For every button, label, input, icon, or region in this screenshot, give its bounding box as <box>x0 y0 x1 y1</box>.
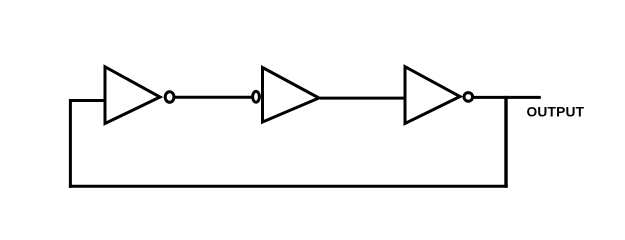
wire feedback right vertical <box>504 96 507 188</box>
inverter U3 output bubble <box>464 93 473 102</box>
svg-text:OUTPUT: OUTPUT <box>527 105 585 120</box>
inverter U1 output bubble <box>165 92 174 103</box>
wire feedback bottom horizontal <box>69 185 508 188</box>
wire U2 output to U3 input <box>320 97 404 100</box>
wire U3 output to OUTPUT <box>473 96 541 99</box>
wire U1 input <box>69 99 105 102</box>
buffer U2 input bubble <box>253 91 260 102</box>
inverter U1 triangle <box>105 67 160 124</box>
wire U1 output to U2 input <box>175 96 252 99</box>
buffer U2 triangle <box>263 68 320 123</box>
wire feedback left vertical <box>69 99 72 188</box>
inverter U3 triangle <box>405 67 460 124</box>
